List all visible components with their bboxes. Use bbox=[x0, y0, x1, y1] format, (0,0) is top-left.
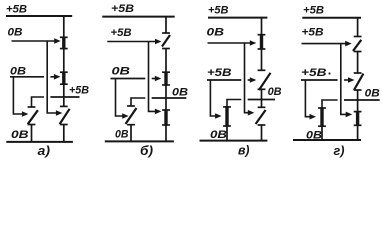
transistor VT4 а bbox=[60, 105, 68, 107]
svg-text:0В: 0В bbox=[365, 88, 380, 100]
0V ground rail wire в bbox=[200, 140, 268, 142]
wire VT1 channel в bbox=[261, 35, 263, 49]
wire rail to VT1 drain в bbox=[261, 18, 263, 35]
transistor VT4 г bbox=[354, 111, 362, 113]
svg-text:+5В: +5В bbox=[301, 67, 327, 79]
wire VT2 source to output node а bbox=[63, 84, 65, 97]
0V ground rail wire б bbox=[105, 140, 174, 142]
wire output node to VT4 drain в bbox=[261, 100, 263, 108]
wire VT4 channel г bbox=[357, 112, 359, 126]
wire VT3 source to ground в bbox=[226, 126, 228, 141]
svg-text:а): а) bbox=[38, 143, 51, 158]
transistor VT2 г bbox=[354, 72, 362, 74]
input B wire left of crossover г bbox=[301, 79, 338, 81]
svg-text:0В: 0В bbox=[268, 86, 282, 98]
wire rail to VT1 drain б bbox=[165, 17, 167, 33]
wire output node to VT4 drain г bbox=[357, 100, 359, 112]
+5V supply rail wire в bbox=[208, 17, 267, 19]
wire VT4 source to ground б bbox=[165, 125, 167, 141]
wire VT4 source to ground в bbox=[261, 125, 263, 141]
transistor VT2 б bbox=[162, 71, 170, 73]
svg-text:б): б) bbox=[140, 143, 153, 158]
input A branch to gate arrow VT4 г bbox=[341, 44, 347, 115]
svg-text:0В: 0В bbox=[10, 66, 26, 78]
svg-text:+5В: +5В bbox=[111, 3, 134, 15]
wire VT2 source to output node б bbox=[165, 85, 167, 98]
transistor VT1 б bbox=[162, 32, 170, 34]
wire VT1 source to VT2 drain б bbox=[165, 49, 167, 73]
transistor VT2 в bbox=[258, 69, 266, 71]
input B wire and gate arrow VT2 а bbox=[50, 76, 55, 78]
input A branch to gate arrow VT4 б bbox=[149, 42, 157, 112]
wire VT3 source to ground а bbox=[31, 125, 33, 142]
output node wire б bbox=[152, 97, 187, 99]
transistor VT3 а bbox=[28, 106, 36, 108]
transistor VT4 б bbox=[162, 109, 170, 111]
svg-text:0В: 0В bbox=[8, 27, 23, 39]
wire VT2 channel б bbox=[165, 72, 167, 85]
input A wire and gate arrow VT1 г bbox=[302, 43, 347, 45]
input B wire and gate arrow VT2 в bbox=[248, 79, 252, 81]
wire VT3 drain to output node г bbox=[322, 100, 338, 108]
wire VT4 source to ground а bbox=[63, 125, 65, 142]
input B wire left of crossover а bbox=[10, 76, 44, 78]
svg-text:+5В: +5В bbox=[208, 5, 229, 17]
wire VT2 source to output node в bbox=[261, 89, 263, 99]
svg-text:+5В: +5В bbox=[6, 4, 27, 16]
wire output node to VT4 drain а bbox=[63, 97, 65, 106]
wire VT1 source to VT2 drain а bbox=[63, 49, 65, 73]
svg-text:+5В: +5В bbox=[303, 5, 324, 17]
transistor VT1 в bbox=[258, 34, 266, 36]
input A wire and gate arrow VT1 в bbox=[208, 42, 252, 44]
+5V supply rail wire б bbox=[102, 16, 174, 18]
wire VT1 channel а bbox=[63, 37, 65, 48]
input A branch to gate arrow VT4 в bbox=[245, 43, 250, 113]
wire VT4 source to ground г bbox=[357, 125, 359, 140]
svg-text:+5В: +5В bbox=[111, 27, 132, 39]
svg-text:в): в) bbox=[238, 143, 250, 158]
stray scan dot bbox=[328, 72, 330, 74]
input B branch to gate arrow VT3 г bbox=[305, 80, 311, 117]
+5V supply rail wire а bbox=[6, 15, 72, 17]
svg-text:0В: 0В bbox=[207, 27, 225, 39]
transistor VT3 в bbox=[223, 106, 231, 108]
wire output node to VT4 drain б bbox=[165, 98, 167, 110]
svg-text:0В: 0В bbox=[11, 129, 29, 141]
transistor VT4 в bbox=[258, 106, 266, 108]
output node wire в bbox=[248, 99, 275, 101]
svg-text:0В: 0В bbox=[115, 129, 129, 141]
transistor VT2 а bbox=[60, 71, 68, 73]
input A wire and gate arrow VT1 б bbox=[107, 41, 156, 43]
wire VT1 source to VT2 drain г bbox=[357, 52, 359, 74]
input B branch to gate arrow VT3 в bbox=[210, 80, 216, 116]
input B wire and gate arrow VT2 б bbox=[152, 78, 157, 80]
svg-text:0В: 0В bbox=[210, 129, 227, 141]
svg-text:+5В: +5В bbox=[302, 27, 324, 39]
0V ground rail wire г bbox=[293, 139, 361, 141]
transistor VT3 г bbox=[318, 107, 326, 109]
input B branch to gate arrow VT3 а bbox=[13, 77, 23, 114]
input B wire left of crossover в bbox=[207, 79, 241, 81]
input A wire and gate arrow VT1 а bbox=[12, 40, 56, 42]
wire VT3 source to ground г bbox=[321, 126, 323, 140]
wire VT3 drain to output node б bbox=[131, 98, 145, 106]
+5V supply rail wire г bbox=[302, 17, 361, 19]
wire VT3 drain to output node а bbox=[32, 97, 45, 107]
svg-text:0В: 0В bbox=[172, 87, 188, 99]
wire VT2 source to output node г bbox=[357, 90, 359, 100]
output node wire г bbox=[344, 99, 380, 101]
wire VT4 channel б bbox=[165, 110, 167, 125]
transistor VT1 а bbox=[60, 36, 68, 38]
svg-text:г): г) bbox=[334, 143, 345, 158]
transistor VT3 б bbox=[127, 105, 135, 107]
wire VT2 channel а bbox=[63, 72, 65, 84]
svg-text:0В: 0В bbox=[112, 66, 131, 78]
output node wire а bbox=[50, 96, 79, 98]
0V ground rail wire а bbox=[6, 141, 73, 143]
wire VT3 drain to output node в bbox=[227, 100, 241, 107]
svg-text:+5В: +5В bbox=[69, 85, 89, 97]
wire rail to VT1 drain г bbox=[357, 18, 359, 37]
input A branch to gate arrow VT4 а bbox=[47, 41, 57, 113]
svg-text:+5В: +5В bbox=[207, 67, 232, 79]
input B branch to gate arrow VT3 б bbox=[116, 79, 124, 117]
wire VT3 source to ground б bbox=[130, 125, 132, 142]
input B wire left of crossover б bbox=[111, 78, 146, 80]
transistor VT1 г bbox=[354, 36, 362, 38]
input B wire and gate arrow VT2 г bbox=[344, 79, 350, 81]
wire VT1 source to VT2 drain в bbox=[261, 49, 263, 70]
wire rail to VT1 drain а bbox=[63, 16, 65, 37]
